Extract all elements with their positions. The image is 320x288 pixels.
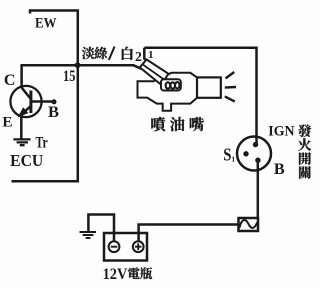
wire junction to injector terminal 2 <box>78 65 142 69</box>
battery negative wire to ground <box>88 215 114 241</box>
wire collector drop into transistor <box>22 65 31 99</box>
wire collector node to junction 15 <box>21 64 78 67</box>
svg-text:1: 1 <box>231 155 235 164</box>
transistor base bar <box>29 91 32 114</box>
svg-text:E: E <box>2 114 12 131</box>
emitter arrowhead <box>19 109 27 117</box>
ground symbol (battery) <box>80 232 97 238</box>
svg-text:C: C <box>4 72 16 89</box>
label 發火開關 (vertical) <box>298 124 311 137</box>
switch to fuse wire <box>257 161 260 218</box>
junction dot 15 <box>75 62 81 68</box>
svg-text:2: 2 <box>135 49 142 64</box>
terminal 1 drop into connector <box>144 48 148 63</box>
emitter wire to ground <box>20 114 23 139</box>
injector body <box>138 73 198 111</box>
svg-text:EW: EW <box>35 16 57 32</box>
wire fuse to battery positive <box>139 225 239 241</box>
base wire to B terminal <box>31 100 53 103</box>
fuse element wave <box>240 220 258 228</box>
switch contact dots <box>253 142 258 147</box>
fuse box <box>239 218 259 231</box>
transistor emitter diagonal <box>20 106 31 116</box>
svg-text:1: 1 <box>148 49 154 61</box>
ignition switch circle <box>237 137 271 171</box>
svg-text:B: B <box>274 160 285 178</box>
injector nozzle <box>197 77 221 97</box>
injector connector prongs <box>140 60 169 85</box>
svg-text:S: S <box>223 144 231 164</box>
svg-text:IGN: IGN <box>268 124 294 140</box>
top wire from injector terminal 1 to ignition switch <box>144 48 256 144</box>
svg-text:Tr: Tr <box>36 134 48 151</box>
injector coil <box>166 82 171 88</box>
ECU box (EW pin box, right edge and bottom edge) <box>12 11 78 182</box>
svg-text:15: 15 <box>63 68 76 85</box>
prong divider <box>143 65 164 80</box>
transistor Q1 circle <box>10 86 41 117</box>
injector coil housing <box>161 79 181 90</box>
battery negative terminal <box>109 241 120 252</box>
svg-text:12V: 12V <box>103 264 128 283</box>
svg-text:B: B <box>48 103 59 121</box>
label 噴油嘴 <box>151 117 165 131</box>
svg-text:ECU: ECU <box>10 151 43 170</box>
ground symbol (ECU) <box>13 139 30 145</box>
wire label 淡綠/白 <box>82 47 95 59</box>
terminal dot B (transistor base) <box>52 99 57 104</box>
spray lines <box>225 72 236 102</box>
battery box <box>104 233 147 261</box>
battery positive terminal <box>133 241 144 252</box>
